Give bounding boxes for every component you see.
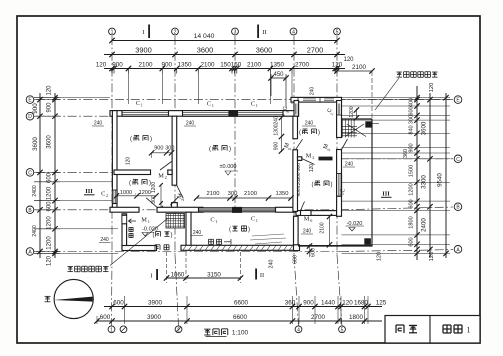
svg-text:M: M (141, 217, 147, 224)
dim line 1200/300 room2 (160, 184, 162, 208)
svg-text:II: II (260, 272, 264, 279)
svg-text:): ) (331, 182, 333, 188)
svg-text:2700: 2700 (295, 61, 310, 68)
bottom inner dim 1060 3150 (167, 277, 241, 279)
axis line 1 vertical (111, 36, 113, 255)
door M1 leaf vestibule (146, 198, 157, 208)
axis4 wall below B down to A (294, 216, 299, 247)
section mark I bottom (156, 269, 158, 280)
window C1 top room1 (122, 111, 169, 117)
grid bubble C right (454, 155, 462, 163)
top overall dim line 14040 (112, 40, 337, 42)
svg-text:1800: 1800 (409, 216, 415, 228)
svg-text:240: 240 (310, 87, 316, 96)
svg-text:1: 1 (141, 103, 143, 108)
svg-text:(: ( (209, 147, 211, 153)
top dim row 3 detail (104, 68, 345, 70)
svg-text:(: ( (312, 182, 314, 188)
svg-text:C: C (341, 188, 347, 192)
terrace bottom edge (298, 245, 373, 247)
svg-text:3600: 3600 (256, 45, 272, 54)
svg-text:C: C (28, 170, 32, 176)
section mark I top (148, 25, 150, 39)
svg-text:240: 240 (100, 237, 109, 243)
window C1 top centerroom a (183, 111, 230, 117)
north label 北 (45, 296, 51, 301)
door M3 leaf axis2 (177, 185, 184, 198)
svg-text:900: 900 (32, 103, 39, 114)
svg-text:150: 150 (220, 61, 231, 68)
svg-text:2700: 2700 (307, 45, 323, 54)
svg-text:120: 120 (342, 299, 353, 306)
interior wall C horizontal room1/room2 (114, 170, 151, 175)
svg-text:360: 360 (403, 149, 409, 158)
svg-text:3600: 3600 (197, 45, 213, 54)
svg-text:I: I (150, 273, 152, 280)
svg-text:125: 125 (376, 299, 387, 306)
bottom dim row A (104, 306, 382, 308)
svg-text:900: 900 (303, 299, 314, 306)
label 漏窗 with dash (208, 239, 221, 244)
svg-text:2: 2 (339, 193, 344, 195)
svg-text:): ) (150, 137, 152, 143)
svg-text:120: 120 (343, 57, 354, 63)
grid bubble C left (26, 169, 34, 177)
grid bubble 1 top (109, 28, 116, 35)
svg-text:1200: 1200 (47, 186, 53, 200)
svg-text:2400: 2400 (421, 218, 428, 232)
svg-text:3150: 3150 (207, 271, 221, 278)
svg-text:300: 300 (409, 115, 415, 124)
grid bubble 2 top (172, 28, 179, 35)
grid bubble A left (26, 248, 34, 256)
terrace right edge (371, 119, 373, 247)
top dim row 2 (104, 54, 345, 56)
svg-text:C: C (251, 216, 255, 223)
svg-text:C: C (251, 101, 255, 108)
svg-text:300: 300 (165, 146, 174, 152)
svg-text:450: 450 (273, 72, 284, 78)
grid bubble A right (454, 246, 462, 254)
right mid dim chain (429, 93, 431, 258)
svg-text:±0.000: ±0.000 (219, 164, 236, 170)
svg-text:2: 2 (106, 193, 108, 198)
right detail dim chain (416, 86, 418, 260)
axis5 upper wall with window C1 vertical (337, 101, 342, 138)
grid bubble E right (454, 96, 462, 104)
svg-text:3: 3 (234, 30, 237, 36)
exterior wall E segment top-right (291, 97, 342, 102)
svg-text:1440: 1440 (321, 299, 336, 306)
svg-text:1060: 1060 (171, 271, 185, 278)
svg-text:240: 240 (186, 121, 195, 127)
svg-text:420: 420 (296, 180, 302, 188)
left outer dim chain (39, 93, 41, 258)
svg-text:C: C (207, 101, 211, 108)
svg-text:360: 360 (285, 299, 296, 306)
svg-text:300: 300 (151, 195, 157, 204)
axis line A horizontal (36, 251, 340, 253)
terrace pier SE (solid) (364, 238, 371, 245)
svg-text:1800: 1800 (349, 314, 364, 321)
axis line 4 vertical (293, 36, 295, 255)
svg-text:2100: 2100 (207, 191, 220, 197)
entry annotation chars (129, 227, 133, 237)
svg-text:240: 240 (305, 121, 314, 127)
right extension lines (342, 97, 451, 99)
svg-text:2: 2 (165, 175, 167, 180)
svg-text:240: 240 (303, 229, 312, 235)
exterior wall left (axis 1) (112, 111, 117, 212)
svg-text:1200: 1200 (409, 183, 415, 195)
axis line C horizontal left (36, 171, 120, 173)
svg-text:900: 900 (296, 163, 302, 171)
svg-text:1300: 1300 (274, 124, 280, 135)
north needle (54, 297, 93, 302)
axis5 wall middle with window C2 (337, 150, 342, 217)
svg-text:2: 2 (312, 155, 314, 160)
svg-text:3300: 3300 (421, 175, 428, 189)
wall B to axis4 (276, 207, 297, 212)
svg-text:4: 4 (292, 30, 295, 36)
svg-text:1: 1 (256, 218, 258, 223)
svg-text:600: 600 (293, 255, 299, 264)
right overall dim chain 9540 (445, 93, 447, 258)
svg-text:240: 240 (274, 116, 280, 125)
svg-text:III: III (85, 188, 93, 195)
svg-text:240: 240 (269, 260, 275, 269)
grid bubble 3 top (232, 28, 239, 35)
svg-text:1: 1 (215, 219, 217, 224)
svg-text:(: ( (130, 137, 132, 143)
svg-text:600: 600 (47, 172, 53, 183)
svg-text:C: C (210, 217, 214, 224)
svg-text:1: 1 (111, 30, 114, 36)
floor grate vestibule (hatch) (166, 214, 185, 229)
window C2 in left wall (112, 190, 117, 204)
pier at A axis4 (294, 245, 300, 251)
svg-text:II: II (262, 29, 266, 36)
axis line C right (room divider level) (340, 158, 453, 160)
svg-text:): ) (248, 227, 250, 233)
svg-text:2400: 2400 (32, 225, 38, 237)
svg-text:1: 1 (148, 219, 150, 224)
label red tile paving bottom left (67, 266, 108, 272)
svg-text:900: 900 (296, 188, 302, 196)
svg-text:600: 600 (409, 199, 415, 208)
svg-text:600: 600 (409, 237, 415, 246)
svg-text:900: 900 (112, 61, 123, 68)
section mark II bottom (255, 269, 257, 280)
grid bubble 5 top (334, 28, 341, 35)
grid bubble E left (26, 96, 34, 104)
window C1 in B wall b (242, 208, 276, 212)
label 门洞 (155, 245, 169, 250)
svg-text:): ) (149, 181, 151, 187)
svg-text:D: D (28, 114, 32, 120)
svg-text:150: 150 (231, 61, 242, 68)
svg-text:2100: 2100 (138, 61, 153, 68)
door M6 leaf (301, 202, 305, 211)
label red tile paving top right (396, 72, 437, 78)
door M2 gap and leaf (160, 162, 172, 171)
svg-text:120: 120 (377, 252, 383, 261)
svg-text:C: C (456, 157, 460, 163)
svg-text:5: 5 (336, 30, 339, 36)
svg-text:M: M (304, 216, 310, 223)
partition wall right rooms H1 (298, 157, 302, 161)
kitchen south wall (offset) (296, 211, 339, 216)
svg-text:120: 120 (47, 255, 53, 266)
svg-text:240: 240 (193, 230, 202, 236)
exterior wall B (axis B) left part (110, 207, 139, 212)
svg-text:300: 300 (228, 191, 238, 197)
center room dim row 2100 300 2100 1350 (197, 197, 292, 199)
svg-text:2100: 2100 (247, 61, 262, 68)
svg-text:1200: 1200 (151, 182, 157, 193)
svg-text:2100: 2100 (352, 64, 367, 71)
wall B from door M1 to axis2 area (157, 207, 203, 212)
svg-text:120: 120 (96, 61, 107, 68)
axis line 5 vertical (336, 36, 338, 255)
svg-text:900: 900 (154, 146, 163, 152)
svg-text:(: ( (129, 181, 131, 187)
grid bubble 4 top (290, 28, 297, 35)
svg-text:300: 300 (296, 172, 302, 180)
svg-text:2: 2 (174, 30, 177, 36)
axis line 3 vertical (234, 36, 236, 212)
svg-text:1680: 1680 (354, 299, 369, 306)
svg-text:2100: 2100 (320, 222, 326, 233)
svg-text:1:100: 1:100 (232, 330, 249, 337)
svg-text:I: I (142, 29, 144, 36)
svg-text:3600: 3600 (32, 137, 39, 151)
svg-text:(: ( (299, 130, 301, 136)
grid bubbles bottom (108, 326, 115, 333)
pier axis3 top (solid) (229, 110, 237, 117)
svg-text:1350: 1350 (270, 61, 285, 68)
svg-text:1000: 1000 (120, 190, 132, 196)
svg-text:2700: 2700 (311, 314, 326, 321)
svg-text:1350: 1350 (276, 191, 289, 197)
vestibule entry arrow (129, 219, 137, 223)
lattice wall A (garden) (181, 245, 296, 250)
svg-text:1200: 1200 (47, 216, 53, 230)
stairs break X (345, 124, 364, 137)
window C1 top centerroom b (238, 111, 284, 117)
section mark II top (257, 25, 259, 39)
drawing title 平面图 1:100 (204, 329, 228, 335)
svg-text:3900: 3900 (135, 45, 151, 54)
grid bubble B left (26, 206, 34, 214)
axis line 2 vertical (174, 36, 176, 255)
grid bubble D left (26, 112, 34, 120)
svg-text:2400: 2400 (32, 185, 38, 197)
svg-text:5: 5 (341, 328, 344, 334)
svg-text:6: 6 (310, 218, 312, 223)
svg-text:): ) (171, 233, 173, 239)
dim line 2100 kitchen vertical (329, 216, 331, 246)
door M5 leaf (296, 139, 303, 150)
top extension lines (111, 69, 113, 74)
svg-text:(: ( (153, 233, 155, 239)
bottom dim row B (97, 320, 382, 322)
axis line E horizontal (36, 99, 453, 101)
svg-text:120: 120 (309, 164, 315, 173)
top dim 450 (271, 77, 286, 79)
svg-text:240: 240 (94, 121, 103, 127)
interior wall axis2 vertical (172, 116, 177, 185)
door M4 gap leaf to terrace (342, 139, 348, 150)
svg-text:3900: 3900 (147, 314, 162, 321)
vestibule left wall (122, 214, 127, 249)
svg-text:600: 600 (409, 106, 415, 115)
wall A with door gap (vestibule) (122, 246, 157, 251)
svg-text:120: 120 (429, 83, 435, 93)
svg-text:): ) (229, 147, 231, 153)
svg-text:1200: 1200 (139, 190, 151, 196)
tiny annotation near lattice (252, 234, 284, 236)
svg-text:1500: 1500 (409, 165, 415, 177)
vestibule right wall (186, 212, 191, 248)
svg-text:600: 600 (100, 314, 111, 321)
left extension lines (34, 97, 60, 99)
window C1 in B wall a (199, 208, 233, 212)
svg-text:6600: 6600 (233, 314, 248, 321)
terrace top edge (342, 118, 373, 120)
axis line D horizontal (36, 115, 298, 117)
step wall with window C3 (294, 101, 299, 117)
title block (385, 316, 480, 344)
svg-text:M: M (158, 173, 164, 180)
svg-text:1: 1 (467, 326, 471, 335)
svg-text:900: 900 (274, 142, 280, 151)
svg-text:1: 1 (110, 328, 113, 334)
axis line B horizontal (36, 209, 340, 211)
svg-text:120: 120 (47, 85, 53, 96)
svg-text:(: ( (229, 227, 231, 233)
svg-text:4: 4 (297, 328, 300, 334)
svg-text:M: M (306, 153, 312, 160)
interior wall axis2 lower pier (172, 203, 178, 210)
svg-text:2100: 2100 (200, 61, 215, 68)
svg-text:1350: 1350 (177, 61, 192, 68)
svg-text:240: 240 (345, 162, 354, 168)
svg-text:6600: 6600 (234, 299, 249, 306)
left inner dim chain (54, 93, 56, 258)
bottom extension lines (124, 296, 126, 324)
svg-text:3900: 3900 (148, 299, 163, 306)
svg-text:2100: 2100 (244, 191, 257, 197)
title text 建施1 (443, 325, 451, 333)
svg-text:600: 600 (113, 299, 124, 306)
svg-text:C: C (101, 191, 105, 198)
door M2 right leaf (302, 159, 315, 165)
svg-text:3600: 3600 (47, 135, 53, 149)
title text 图号 (396, 325, 404, 333)
svg-text:900: 900 (162, 61, 173, 68)
svg-text:14 040: 14 040 (194, 33, 215, 40)
grid bubble B right (454, 203, 462, 211)
dim 900 300 room1 (152, 152, 172, 154)
pier axis3 B wall (solid) (232, 207, 242, 213)
svg-text:1200: 1200 (47, 236, 53, 250)
top dim 2100 terrace (337, 70, 372, 72)
svg-text:1: 1 (212, 103, 214, 108)
svg-text:III: III (382, 191, 390, 198)
svg-text:): ) (318, 130, 320, 136)
outdoor stairs treads (342, 120, 344, 138)
svg-text:9540: 9540 (437, 173, 444, 187)
svg-text:120: 120 (126, 157, 132, 166)
interior wall axis4 vertical (293, 116, 298, 139)
exterior wall top (axis D) (110, 111, 298, 117)
terrace pier NE (solid) (365, 121, 371, 127)
svg-text:C: C (136, 100, 140, 107)
svg-text:1: 1 (256, 103, 258, 108)
svg-text:900: 900 (47, 102, 53, 113)
north arrow circle (54, 279, 93, 318)
svg-text:900: 900 (409, 143, 415, 152)
